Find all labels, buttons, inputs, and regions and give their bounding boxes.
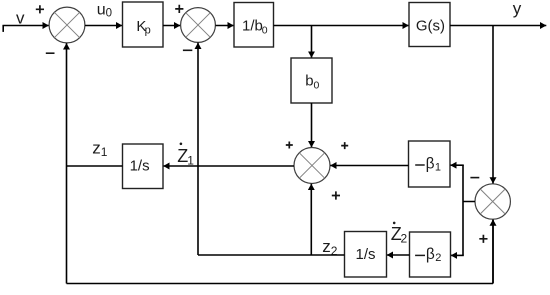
block -beta2 bbox=[410, 232, 451, 277]
wire from S4 bottom to bottom feedback bbox=[492, 220, 494, 284]
block b0 bbox=[291, 58, 332, 103]
wire Kp to S2 bbox=[163, 25, 180, 27]
wire -beta1 to S3 bbox=[330, 165, 408, 167]
plus sign S3 top-left bbox=[286, 142, 293, 149]
wire z2 branch up into S3 bbox=[310, 184, 312, 255]
wire S2 to 1/b0 bbox=[216, 25, 234, 27]
minus sign at summer S1 bbox=[46, 52, 55, 54]
wire into -beta2 bbox=[451, 254, 464, 256]
summing junction S3 bbox=[294, 148, 330, 184]
wire left vertical feedback into S1 bbox=[66, 43, 68, 283]
svg-text:0: 0 bbox=[314, 79, 320, 91]
svg-text:p: p bbox=[145, 24, 151, 36]
wire 1/b0 to G(s) bbox=[274, 25, 409, 27]
svg-text:1/s: 1/s bbox=[355, 246, 375, 263]
wire S4 output branch bbox=[463, 165, 475, 255]
plus sign at summer S2 bbox=[175, 5, 183, 13]
wire z1 from 1/s to left vertical bbox=[67, 165, 123, 167]
block G(s) bbox=[409, 3, 450, 47]
summing junction S2 bbox=[181, 8, 216, 43]
minus sign at summer S2 bbox=[183, 49, 192, 51]
svg-text:b: b bbox=[305, 72, 313, 89]
wire z2 up into S2 bbox=[197, 43, 199, 255]
svg-text:z: z bbox=[92, 138, 101, 157]
minus sign at S4 bbox=[470, 177, 479, 179]
plus sign S3 top-right bbox=[341, 142, 348, 149]
wire -beta2 to integrator 1/s (lower) bbox=[387, 254, 410, 256]
block Kp bbox=[123, 2, 164, 47]
svg-text:2: 2 bbox=[435, 252, 441, 264]
svg-text:u: u bbox=[97, 1, 106, 18]
wire v input bbox=[3, 25, 49, 32]
svg-text:β: β bbox=[426, 246, 435, 263]
wire S1 to Kp bbox=[85, 25, 122, 27]
plus sign at summer S1 bbox=[36, 5, 44, 13]
wire y branch down to S4 bbox=[492, 26, 494, 184]
svg-text:z: z bbox=[322, 237, 331, 256]
wire bottom feedback up into S4 bbox=[492, 219, 494, 283]
summing junction S1 bbox=[49, 7, 85, 43]
node Z1dot label bbox=[177, 143, 194, 168]
wire into -beta1 bbox=[450, 164, 464, 166]
svg-text:1: 1 bbox=[435, 162, 441, 174]
svg-text:0: 0 bbox=[262, 24, 268, 36]
svg-text:1: 1 bbox=[187, 153, 194, 167]
summing junction S4 bbox=[475, 184, 510, 219]
svg-text:1/b: 1/b bbox=[242, 18, 263, 35]
wire z2 from lower 1/s to left bbox=[198, 254, 345, 256]
svg-text:0: 0 bbox=[106, 8, 112, 20]
wire G(s) to y output bbox=[450, 25, 546, 27]
svg-text:y: y bbox=[513, 0, 522, 18]
svg-text:v: v bbox=[16, 9, 25, 28]
plus sign S3 bottom-right bbox=[332, 191, 340, 199]
svg-text:G(s): G(s) bbox=[416, 17, 445, 34]
svg-text:1: 1 bbox=[101, 145, 108, 159]
svg-text:2: 2 bbox=[401, 232, 408, 246]
wire S3 output to integrator 1/s bbox=[163, 165, 294, 167]
wire b0 to summer S3 bbox=[311, 103, 313, 147]
wire bottom feedback bbox=[67, 283, 494, 285]
node Z2dot label bbox=[391, 222, 408, 246]
block 1/b0 bbox=[234, 3, 274, 48]
block integrator 1/s (upper) bbox=[123, 144, 164, 189]
svg-text:β: β bbox=[426, 156, 435, 173]
wire u branch down to b0 bbox=[311, 26, 313, 58]
plus sign at S4 bbox=[479, 235, 487, 243]
block integrator 1/s (lower) bbox=[345, 232, 387, 278]
svg-text:1/s: 1/s bbox=[130, 158, 150, 175]
block -beta1 bbox=[409, 141, 451, 187]
